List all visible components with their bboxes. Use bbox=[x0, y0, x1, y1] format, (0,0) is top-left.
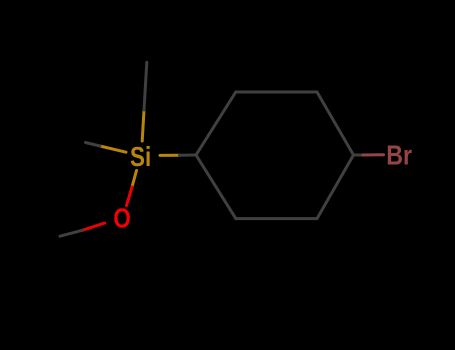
svg-text:Br: Br bbox=[386, 140, 412, 171]
svg-text:O: O bbox=[113, 203, 130, 234]
bond Si-C1 ring (C half, gray) bbox=[180, 154, 197, 157]
svg-text:Si: Si bbox=[130, 141, 151, 172]
wire bbox=[60, 62, 384, 236]
benzene ring edge C1-C2 bbox=[196, 92, 236, 155]
benzene ring edge C6-C1 bbox=[196, 155, 236, 219]
bond Si-CH3 top (Si half, goldenrod) bbox=[142, 110, 144, 141]
benzene ring edge C5-C6 bbox=[236, 217, 317, 220]
bond Si-O (O half, red) bbox=[127, 187, 133, 206]
bond Si-O (Si half, goldenrod) bbox=[132, 171, 137, 188]
bond Si-CH3 top (C half, gray) bbox=[144, 62, 147, 110]
bond Si-CH3 left (C half, gray) bbox=[86, 143, 101, 147]
bond Si-C1 ring (Si half, goldenrod) bbox=[160, 154, 180, 157]
bond C4-Br (Br half, dark red) bbox=[363, 153, 384, 156]
bond Si-CH3 left (Si half, goldenrod) bbox=[100, 146, 126, 152]
bond O-CH3 (C half, gray) bbox=[60, 230, 82, 236]
benzene ring edge C2-C3 bbox=[236, 91, 317, 94]
bond C4-Br (C half, gray) bbox=[354, 153, 364, 156]
benzene ring edge C4-C5 bbox=[317, 155, 354, 219]
bond O-CH3 (O half, red) bbox=[82, 223, 104, 230]
benzene ring edge C3-C4 bbox=[317, 92, 354, 155]
